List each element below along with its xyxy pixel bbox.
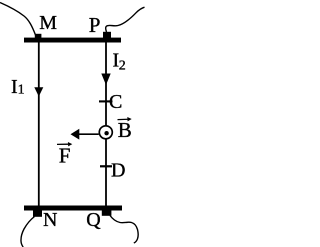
svg-text:Q: Q: [86, 209, 101, 231]
svg-text:F: F: [59, 144, 71, 168]
svg-text:P: P: [89, 13, 101, 37]
svg-text:1: 1: [18, 83, 25, 98]
svg-text:N: N: [43, 209, 57, 231]
svg-text:2: 2: [119, 59, 126, 74]
svg-text:C: C: [109, 91, 122, 113]
svg-text:D: D: [111, 160, 125, 182]
svg-text:B: B: [118, 118, 132, 142]
svg-text:M: M: [39, 12, 57, 34]
